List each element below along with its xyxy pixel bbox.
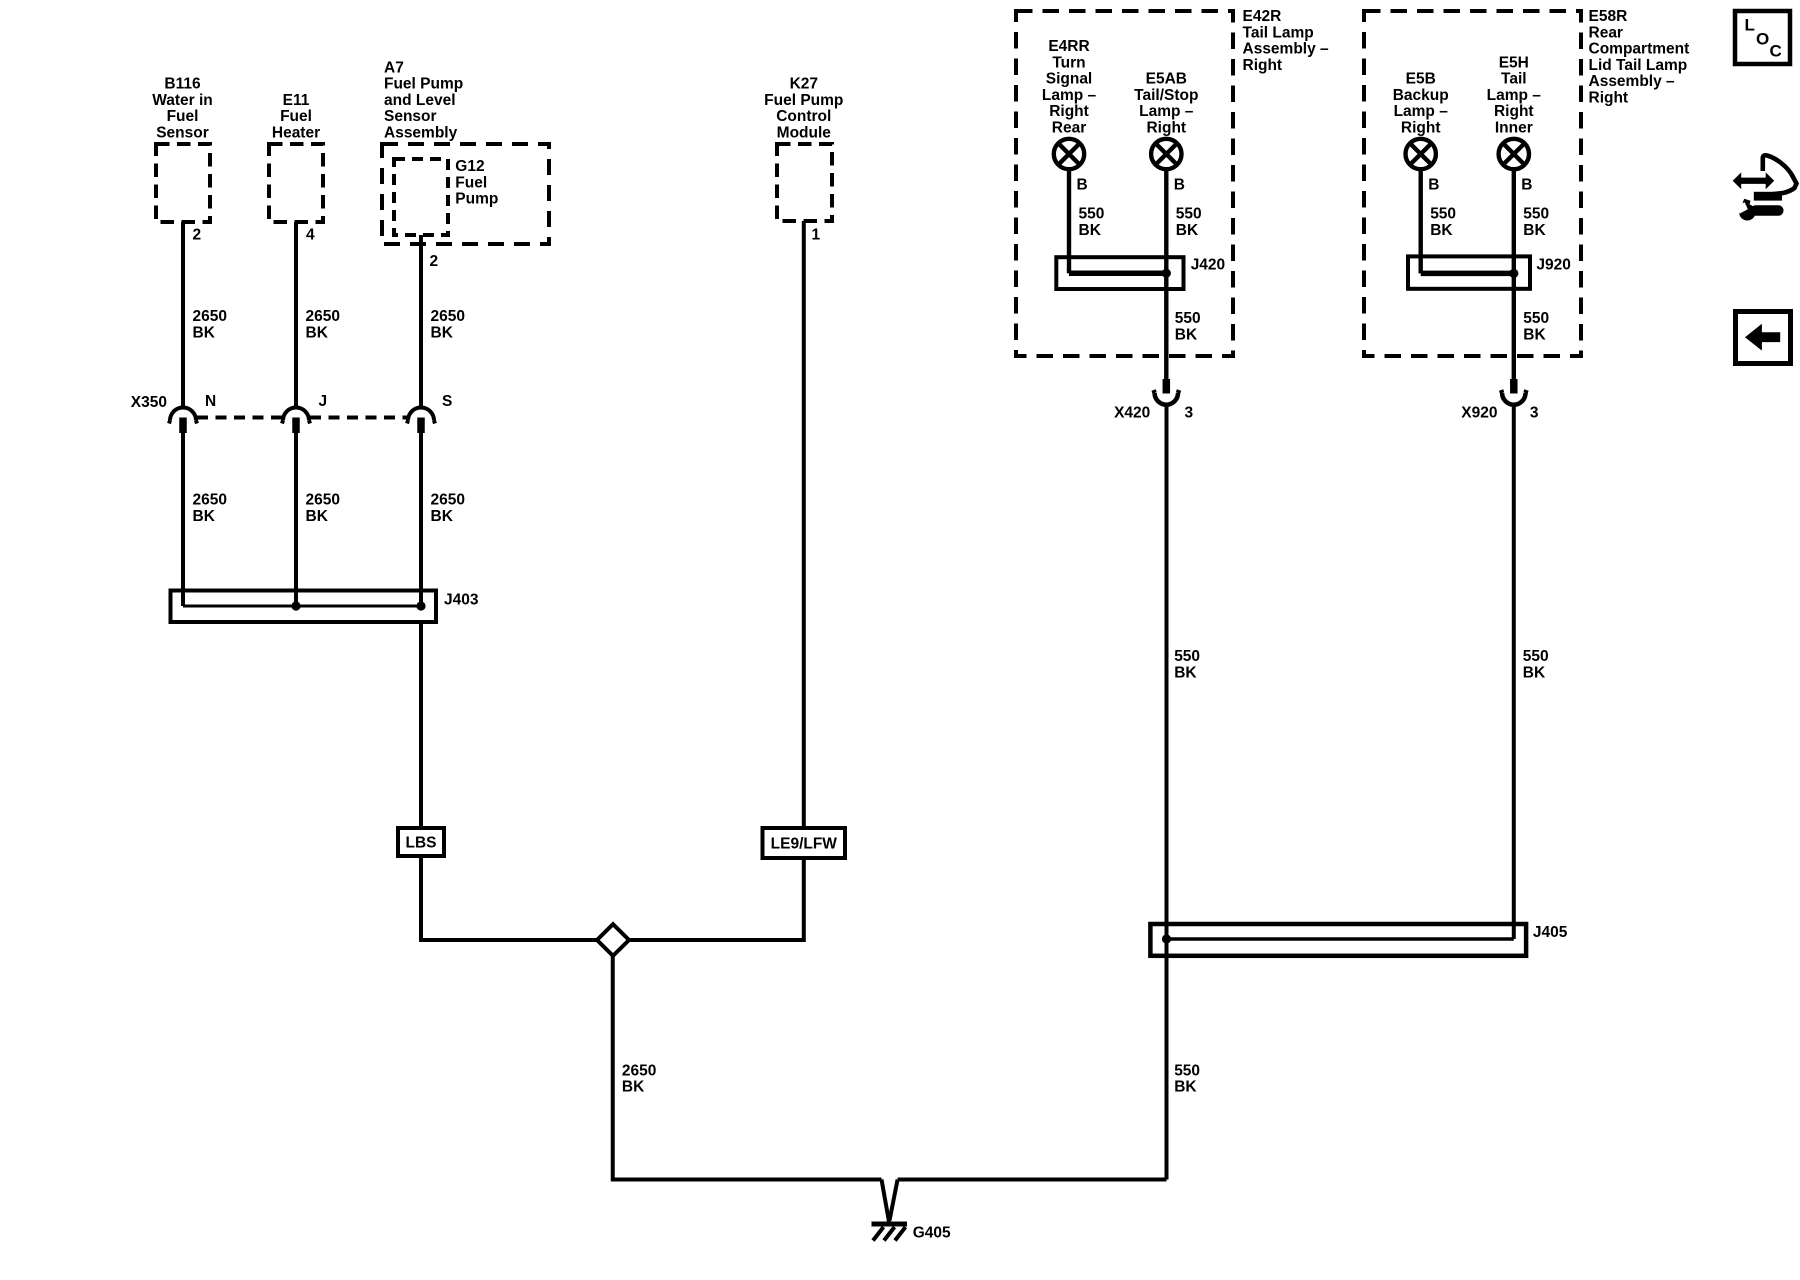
label E11 Fuel Heater	[272, 92, 320, 142]
svg-text:2650: 2650	[193, 308, 227, 325]
svg-text:O: O	[1756, 30, 1769, 49]
component box A7 Fuel Pump and Level Sensor Assembly	[382, 144, 549, 244]
component box B116 Water in Fuel Sensor	[156, 144, 210, 222]
wire ground run right of G405	[898, 1178, 1167, 1182]
svg-text:BK: BK	[622, 1079, 645, 1096]
svg-text:Right: Right	[1494, 103, 1534, 120]
svg-text:Assembly: Assembly	[384, 125, 458, 142]
svg-text:BK: BK	[193, 508, 216, 525]
svg-text:Sensor: Sensor	[384, 108, 437, 125]
svg-text:BK: BK	[1176, 222, 1199, 239]
svg-text:2650: 2650	[306, 492, 340, 509]
ground symbol G405	[872, 1224, 908, 1241]
component box K27 Fuel Pump Control Module	[777, 144, 832, 221]
svg-text:Module: Module	[777, 125, 832, 142]
svg-text:BK: BK	[1523, 664, 1546, 681]
svg-text:1: 1	[812, 227, 821, 244]
svg-text:E58R: E58R	[1589, 8, 1628, 25]
wire label 550 BK (below J920)	[1523, 310, 1549, 343]
label K27 Fuel Pump Control Module	[764, 76, 843, 142]
wire LBS to diamond node	[421, 856, 597, 940]
svg-text:B116: B116	[164, 76, 201, 93]
svg-text:J: J	[319, 393, 328, 410]
wire X420 to splice J405 and ground run	[1165, 405, 1169, 1180]
svg-text:Sensor: Sensor	[156, 125, 209, 142]
svg-text:BK: BK	[1174, 1079, 1197, 1096]
label E42R Tail Lamp Assembly - Right	[1243, 8, 1330, 74]
svg-text:Assembly –: Assembly –	[1243, 41, 1330, 58]
svg-text:Fuel Pump: Fuel Pump	[384, 76, 463, 93]
component box E58R Rear Compartment Lid Tail Lamp Assembly - Right	[1364, 11, 1581, 356]
label B116 Water in Fuel Sensor	[152, 76, 213, 142]
svg-text:550: 550	[1174, 1062, 1200, 1079]
junction on J405 bus	[1162, 934, 1171, 943]
svg-text:Inner: Inner	[1495, 120, 1533, 137]
svg-text:2650: 2650	[431, 492, 465, 509]
splice J420 bus	[1069, 270, 1166, 276]
svg-text:2650: 2650	[306, 308, 340, 325]
wire label 2650 BK (N-J403)	[193, 492, 227, 525]
engine code box LE9/LFW	[763, 828, 846, 858]
svg-text:BK: BK	[1430, 222, 1453, 239]
svg-text:2650: 2650	[193, 492, 227, 509]
wire label 550 BK (E5AB)	[1176, 206, 1202, 239]
svg-text:B: B	[1521, 177, 1532, 194]
svg-text:Tail/Stop: Tail/Stop	[1134, 87, 1198, 104]
svg-text:Heater: Heater	[272, 125, 320, 142]
junction on J920 bus	[1509, 269, 1518, 278]
svg-text:Turn: Turn	[1052, 54, 1085, 71]
splice J403 bus	[183, 605, 421, 608]
svg-text:E5AB: E5AB	[1146, 71, 1187, 88]
wire LE9/LFW to diamond node	[629, 858, 804, 940]
component box E42R Tail Lamp Assembly - Right	[1016, 11, 1233, 356]
svg-text:Lid Tail Lamp: Lid Tail Lamp	[1589, 57, 1688, 74]
wire label 550 BK (E5H)	[1523, 206, 1549, 239]
wire label 550 BK (E5B)	[1430, 206, 1456, 239]
wire X920 to splice J405	[1512, 405, 1516, 939]
splice J920 bus	[1421, 271, 1514, 277]
svg-text:Lamp –: Lamp –	[1487, 87, 1542, 104]
lamp E5H Tail Lamp	[1499, 139, 1529, 169]
svg-text:550: 550	[1175, 310, 1201, 327]
lamp E5AB Tail/Stop Lamp	[1151, 139, 1181, 169]
svg-text:550: 550	[1176, 206, 1202, 223]
svg-text:B: B	[1174, 177, 1185, 194]
svg-text:550: 550	[1523, 206, 1549, 223]
svg-text:BK: BK	[306, 324, 329, 341]
label E4RR Turn Signal Lamp - Right Rear	[1042, 38, 1097, 137]
wire X350-N to splice J403	[181, 433, 185, 606]
wire E5AB to connector X420	[1164, 170, 1168, 380]
label E58R Rear Compartment Lid Tail Lamp Assembly - Right	[1589, 8, 1690, 107]
junction on J420 bus	[1162, 269, 1171, 278]
svg-text:BK: BK	[1523, 326, 1546, 343]
wire label 2650 BK (G12)	[431, 308, 465, 341]
svg-text:Fuel: Fuel	[167, 108, 199, 125]
svg-text:BK: BK	[306, 508, 329, 525]
in-line connector X350 dashed line	[197, 416, 407, 420]
svg-text:J420: J420	[1191, 256, 1225, 273]
connector terminal X350-N	[169, 408, 197, 434]
wire label 2650 BK (J-J403)	[306, 492, 340, 525]
icon LOC box top right	[1735, 11, 1790, 64]
svg-text:BK: BK	[431, 508, 454, 525]
wire K27 pin 1 to LE9/LFW box	[802, 221, 806, 828]
svg-text:BK: BK	[1175, 326, 1198, 343]
svg-text:Fuel: Fuel	[455, 174, 487, 191]
svg-text:550: 550	[1523, 648, 1549, 665]
wire splice J403 to LBS	[419, 622, 423, 828]
svg-text:B: B	[1077, 177, 1088, 194]
diamond junction node	[597, 924, 629, 956]
wire B116 pin 2 to X350	[181, 222, 185, 406]
svg-text:N: N	[205, 393, 216, 410]
wire label 550 BK (X420 run)	[1174, 648, 1200, 681]
wire E4RR to splice J420	[1067, 170, 1071, 274]
svg-text:2: 2	[193, 227, 202, 244]
svg-text:BK: BK	[1523, 222, 1546, 239]
svg-text:BK: BK	[1079, 222, 1102, 239]
wire G12 pin 2 to X350	[419, 235, 423, 406]
svg-text:Control: Control	[776, 108, 831, 125]
splice pack J403 box	[171, 591, 437, 623]
svg-text:2: 2	[430, 253, 439, 270]
icon back arrow box	[1736, 312, 1791, 364]
svg-text:Lamp –: Lamp –	[1139, 103, 1194, 120]
svg-text:E5B: E5B	[1406, 71, 1436, 88]
svg-text:550: 550	[1523, 310, 1549, 327]
wire label 2650 BK (E11)	[306, 308, 340, 341]
connector X420	[1154, 379, 1179, 405]
wire E11 pin 4 to X350	[294, 222, 298, 406]
splice pack J920 box	[1408, 256, 1530, 288]
label E5B Backup Lamp - Right	[1393, 71, 1449, 137]
svg-text:Right: Right	[1146, 120, 1186, 137]
svg-text:Compartment: Compartment	[1589, 41, 1690, 58]
svg-text:Right: Right	[1243, 57, 1283, 74]
svg-text:Tail: Tail	[1501, 71, 1527, 88]
svg-text:K27: K27	[790, 76, 818, 93]
label E5AB Tail/Stop Lamp - Right	[1134, 71, 1198, 137]
wire label 550 BK (below J420)	[1175, 310, 1201, 343]
svg-text:E4RR: E4RR	[1048, 38, 1089, 55]
splice pack J420 box	[1056, 257, 1183, 289]
svg-text:G405: G405	[913, 1224, 951, 1241]
svg-text:and Level: and Level	[384, 92, 456, 109]
connector terminal X350-S	[407, 408, 435, 434]
connector X920	[1501, 379, 1526, 405]
svg-text:3: 3	[1185, 404, 1194, 421]
wire label 550 BK (J405 to ground)	[1174, 1062, 1200, 1095]
svg-text:Fuel: Fuel	[280, 108, 312, 125]
svg-text:2650: 2650	[431, 308, 465, 325]
svg-text:B: B	[1428, 177, 1439, 194]
junction at J on J403 bus	[291, 601, 300, 610]
svg-text:G12: G12	[455, 158, 484, 175]
svg-text:550: 550	[1430, 206, 1456, 223]
svg-text:BK: BK	[193, 324, 216, 341]
svg-text:Assembly –: Assembly –	[1589, 73, 1676, 90]
lamp E4RR Turn Signal Lamp	[1054, 139, 1084, 169]
ground lead V at G405	[882, 1180, 898, 1224]
svg-text:LBS: LBS	[406, 835, 437, 852]
label G12 Fuel Pump	[455, 158, 498, 208]
component box G12 Fuel Pump	[394, 159, 448, 235]
component box E11 Fuel Heater	[269, 144, 323, 222]
svg-text:Backup: Backup	[1393, 87, 1449, 104]
svg-text:550: 550	[1079, 206, 1105, 223]
svg-text:S: S	[442, 393, 452, 410]
wire label 550 BK (E4RR)	[1079, 206, 1105, 239]
svg-text:BK: BK	[431, 324, 454, 341]
svg-text:Tail Lamp: Tail Lamp	[1243, 24, 1314, 41]
svg-text:J405: J405	[1533, 924, 1568, 941]
svg-text:Signal: Signal	[1046, 71, 1093, 88]
svg-text:Rear: Rear	[1052, 120, 1086, 137]
wire X350-J to splice J403	[294, 433, 298, 606]
wire label 550 BK (X920 run)	[1523, 648, 1549, 681]
svg-text:Lamp –: Lamp –	[1394, 103, 1449, 120]
label E5H Tail Lamp - Right Inner	[1487, 54, 1542, 136]
splice J405 bus	[1167, 937, 1514, 941]
svg-text:Right: Right	[1401, 120, 1441, 137]
svg-text:J403: J403	[444, 592, 479, 609]
svg-text:550: 550	[1174, 648, 1200, 665]
svg-text:E11: E11	[283, 92, 310, 109]
svg-text:3: 3	[1530, 404, 1539, 421]
svg-text:X350: X350	[131, 394, 167, 411]
wire label 2650 BK (S-J403)	[431, 492, 465, 525]
svg-text:C: C	[1770, 42, 1782, 61]
connector terminal X350-J	[282, 408, 310, 434]
svg-text:Lamp –: Lamp –	[1042, 87, 1097, 104]
svg-text:Pump: Pump	[455, 191, 498, 208]
svg-text:4: 4	[306, 227, 315, 244]
svg-text:LE9/LFW: LE9/LFW	[771, 836, 838, 853]
svg-text:E5H: E5H	[1499, 54, 1529, 71]
svg-text:A7: A7	[384, 59, 404, 76]
engine code box LBS	[398, 828, 444, 856]
svg-text:X420: X420	[1114, 404, 1150, 421]
junction at S on J403 bus	[416, 601, 425, 610]
svg-text:BK: BK	[1174, 664, 1197, 681]
svg-text:Right: Right	[1589, 90, 1629, 107]
svg-text:Water in: Water in	[152, 92, 213, 109]
svg-text:J920: J920	[1536, 256, 1570, 273]
wire diamond to ground run	[613, 956, 882, 1180]
svg-text:2650: 2650	[622, 1062, 656, 1079]
svg-text:Rear: Rear	[1589, 24, 1623, 41]
wire E5H to connector X920	[1512, 170, 1516, 380]
wire E5B to splice J920	[1418, 170, 1422, 274]
svg-text:X920: X920	[1461, 404, 1497, 421]
splice pack J405 box	[1150, 924, 1526, 956]
wire label 2650 BK (to G405)	[622, 1062, 656, 1095]
wire label 2650 BK (B116)	[193, 308, 227, 341]
svg-text:Right: Right	[1049, 103, 1089, 120]
lamp E5B Backup Lamp	[1406, 139, 1436, 169]
svg-text:Fuel Pump: Fuel Pump	[764, 92, 843, 109]
svg-text:L: L	[1745, 16, 1755, 35]
icon wrench and arrows (service tool)	[1733, 155, 1797, 220]
label A7 Fuel Pump and Level Sensor Assembly	[384, 59, 463, 141]
wire X350-S to splice J403	[419, 433, 423, 606]
svg-text:E42R: E42R	[1243, 8, 1282, 25]
